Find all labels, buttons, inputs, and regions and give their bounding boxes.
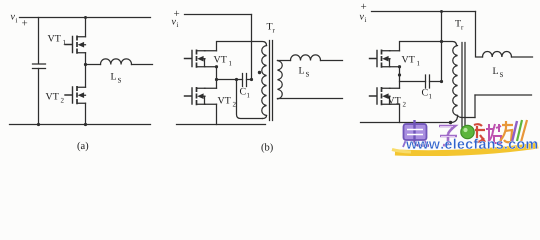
label LS (c): [493, 67, 503, 77]
junction dot drain wire (c): [440, 40, 443, 43]
transistor VT1 (a): [65, 36, 86, 54]
wire node to VT2 drain (a): [85, 65, 87, 88]
wire rail bend down to LS (c): [476, 12, 483, 58]
inductor LS (b): [291, 55, 321, 61]
wire bottom rail (b): [177, 124, 266, 126]
wire VT1 drain up and right (c): [400, 42, 457, 51]
label LS (b): [299, 67, 309, 77]
node vi label (b): [172, 11, 180, 27]
wire VT1 source to midpoint (c): [399, 67, 401, 89]
watermark character dian: [403, 120, 429, 147]
transistor VT2 (b): [185, 87, 217, 105]
wire VT2 source to bottom rail (a): [85, 103, 87, 124]
capacitor C (a): [33, 64, 46, 69]
wire coil bottom to output riser (c): [458, 116, 476, 118]
wire midpoint to C1 (c): [400, 81, 426, 83]
transformer Tr primary (b): [262, 46, 267, 116]
wire VT1 source to midpoint (b): [216, 67, 218, 89]
wire top rail (b): [185, 14, 252, 16]
capacitor C1 (b): [243, 74, 247, 87]
label VT1 (b): [214, 56, 232, 66]
transistor VT2 (c): [370, 87, 400, 105]
watermark yellow swoosh: [395, 146, 538, 154]
wire lower output (c): [475, 94, 532, 96]
label (a): [77, 142, 88, 152]
wire midpoint to C1 (b): [217, 79, 243, 81]
inductor LS (c): [483, 52, 512, 57]
junction dot C1 right (c): [440, 80, 443, 83]
label VT1 (c): [402, 56, 420, 66]
watermark slash marks: [512, 121, 517, 142]
node vi label (c): [360, 4, 367, 22]
label C1 (c): [422, 89, 432, 99]
wire C1 to rail drop (c): [430, 81, 442, 83]
junction dot midpoint (c): [398, 65, 401, 68]
label VT2 (c): [388, 97, 406, 107]
junction dot midpoint (b): [215, 78, 218, 81]
transformer Tr secondary (b): [278, 61, 283, 99]
transistor VT1 (b): [185, 50, 217, 68]
wire rail to coil bottom (c): [451, 116, 458, 123]
wire LS to output (b): [321, 60, 343, 62]
wire VT2 source to bottom rail (b): [216, 104, 218, 124]
label Tr (c): [455, 20, 463, 30]
wire capacitor leg lower (a): [38, 69, 40, 125]
label LS (a): [111, 73, 121, 83]
wire rail drop at 441 (c): [441, 12, 443, 82]
wire capacitor leg upper (a): [38, 18, 40, 64]
node vi label (a): [11, 15, 28, 25]
inductor LS (a): [101, 59, 132, 65]
junction dot bottom rail right (c): [449, 121, 452, 124]
wire inductor to output (a): [132, 64, 153, 66]
label VT2 (b): [218, 97, 236, 107]
wire bottom rail (c): [361, 122, 451, 124]
label VT1 (a): [48, 35, 66, 45]
watermark character you: [500, 121, 513, 142]
watermark character fa body: [474, 124, 485, 142]
watermark character zi: [439, 126, 457, 145]
junction dot rail top (c): [440, 10, 443, 13]
wire VT1 source to node (a): [85, 53, 87, 65]
transformer core (b): [270, 41, 273, 121]
junction dot C1 left branch (b): [235, 78, 238, 81]
wire VT2 source to bottom rail (c): [399, 104, 401, 122]
watermark character shao: [486, 124, 501, 143]
wire top rail (c): [372, 11, 476, 13]
wire VT1 drain up and to transformer (b): [217, 42, 267, 51]
wire VT1 drain to rail (a): [85, 18, 87, 37]
label C1 (b): [240, 88, 250, 98]
watermark character fa green ball: [461, 125, 474, 138]
transformer core (c): [462, 43, 465, 128]
junction dot bottom mid (a): [84, 123, 87, 126]
wire LS to output (c): [512, 56, 533, 58]
label VT2 (a): [46, 93, 64, 103]
junction dot C1 right (b): [250, 78, 253, 81]
label (b): [261, 143, 272, 153]
transistor VT1 (c): [370, 50, 400, 68]
wire node to inductor (a): [86, 64, 101, 66]
wire primary bottom lead (b): [263, 116, 267, 119]
autotransformer Tr coil (c): [453, 46, 458, 116]
wire C1 to rail drop (b): [247, 79, 252, 81]
wire secondary top output (b): [278, 60, 291, 62]
wire C1 branch down to primary bottom (b): [237, 80, 263, 119]
watermark url text: [406, 138, 537, 149]
node midpoint dot (a): [84, 63, 87, 66]
transistor VT2 (a): [65, 86, 86, 104]
wire output riser (c): [474, 95, 476, 118]
wire rail drop to C1 (b): [251, 15, 253, 80]
wire top rail (a): [20, 17, 151, 19]
capacitor C1 (c): [426, 75, 430, 88]
junction dot rail (a): [84, 16, 87, 19]
junction dot bottom left (a): [37, 123, 40, 126]
label Tr (b): [267, 23, 275, 33]
wire secondary bottom output (b): [278, 98, 343, 100]
polarity dot transformer (b): [258, 71, 261, 74]
wire bottom rail (a): [10, 124, 151, 126]
